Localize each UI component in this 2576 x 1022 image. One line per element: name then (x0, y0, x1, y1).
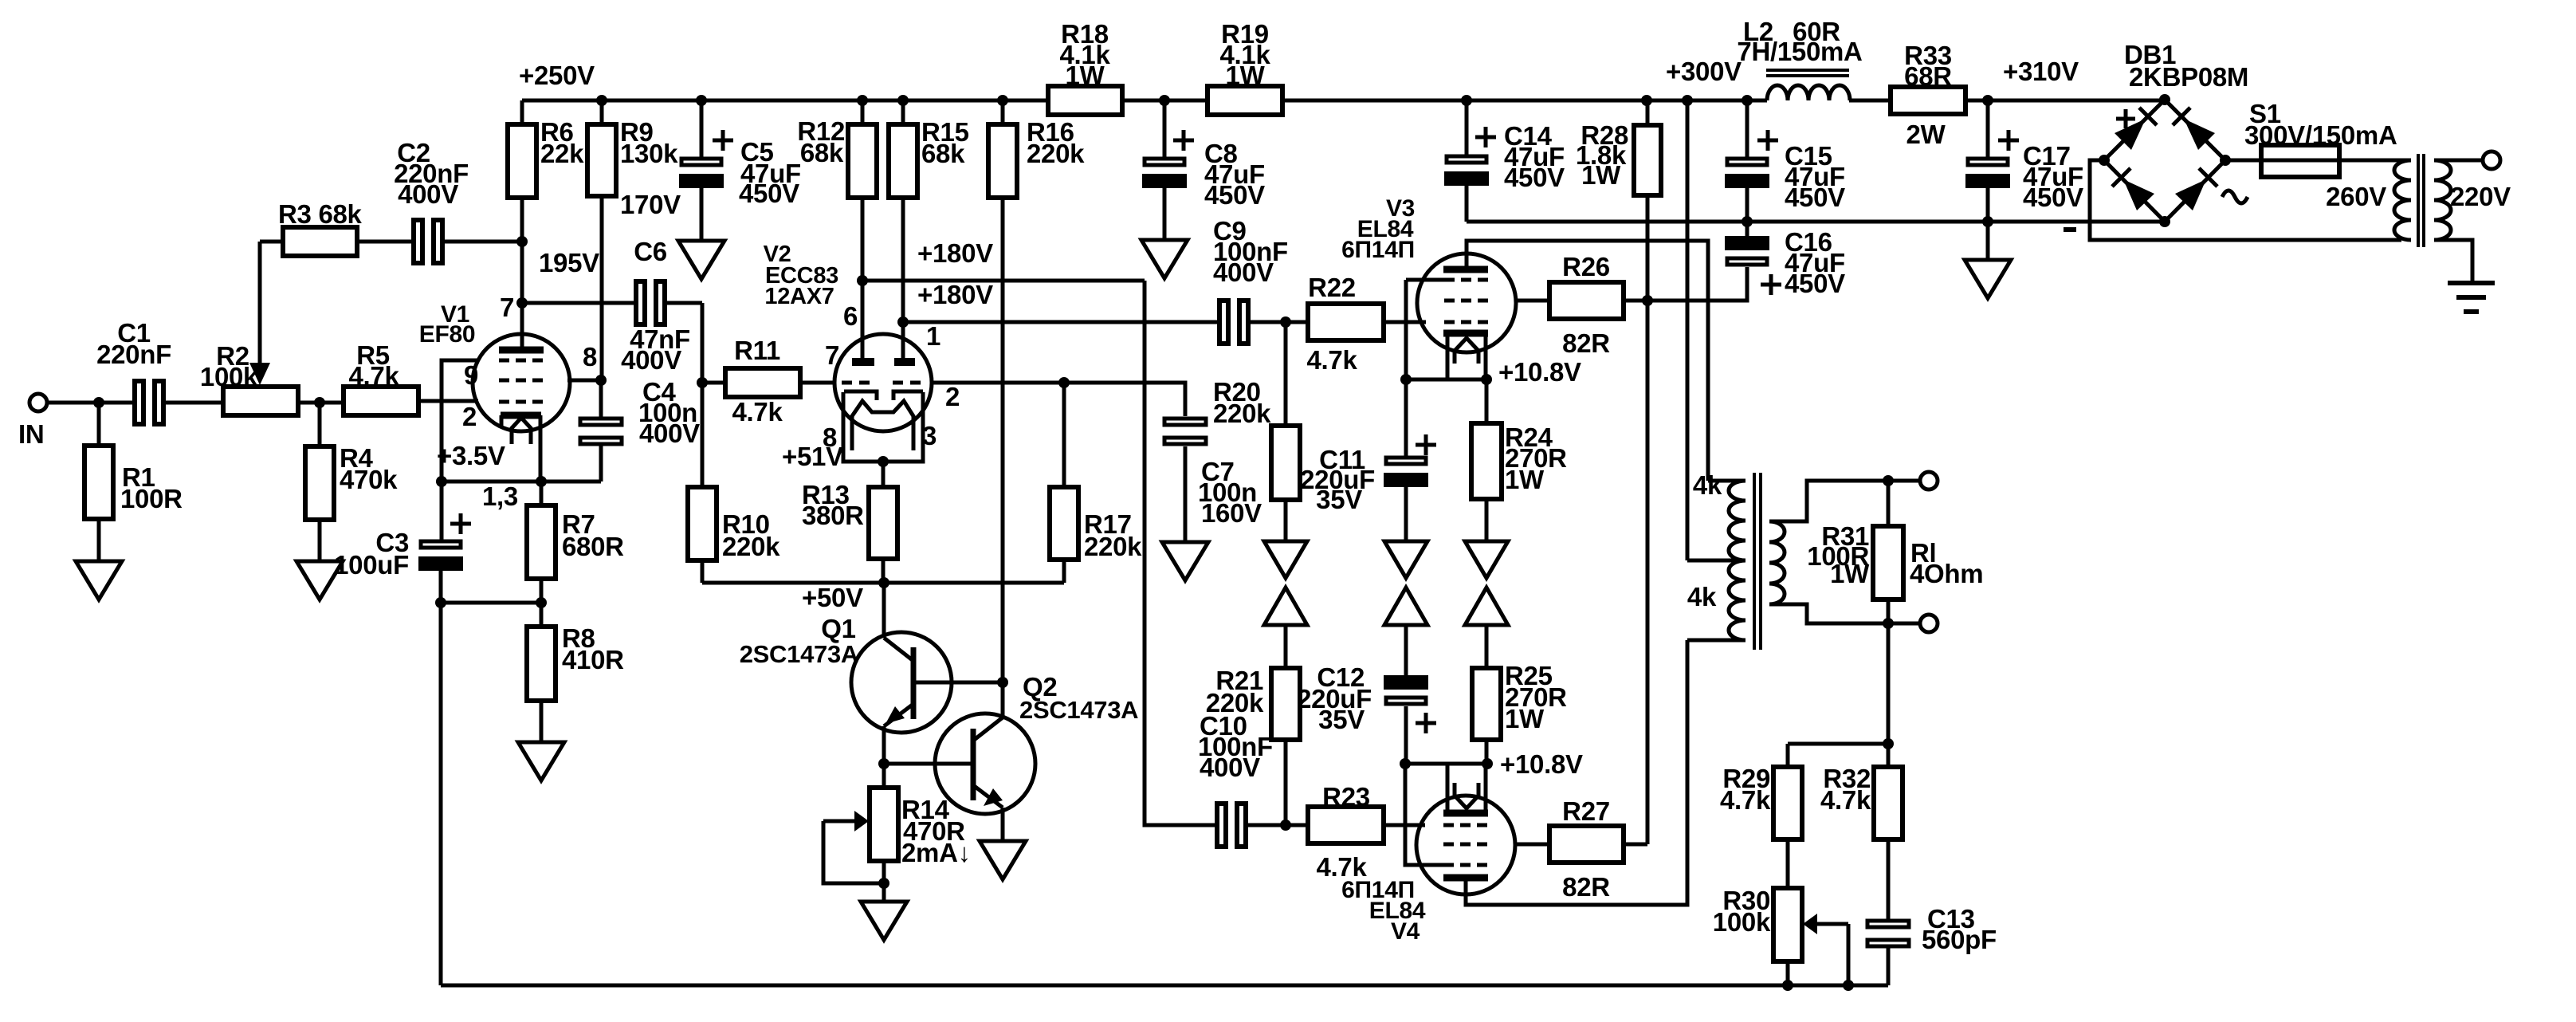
node (1400, 758, 1411, 769)
node (1641, 95, 1652, 106)
node (1280, 820, 1291, 831)
potentiometer R14 (870, 764, 971, 883)
node R4 junction (314, 397, 325, 408)
wire coupling column (1145, 281, 1216, 825)
pin 6 label (843, 301, 858, 331)
label +3.5V (437, 441, 505, 470)
wire +180V upper (862, 279, 1145, 283)
wire (1965, 99, 2165, 103)
wire (1249, 320, 1308, 324)
wire g3 tie (1406, 278, 1444, 282)
wire (1485, 499, 1489, 541)
svg-text:220k: 220k (1213, 399, 1271, 428)
svg-text:9: 9 (464, 360, 478, 390)
svg-text:+50V: +50V (802, 583, 863, 612)
node (697, 377, 708, 388)
node (1982, 95, 1993, 106)
resistor R33 (1891, 41, 1965, 149)
svg-text:22k: 22k (540, 139, 584, 168)
svg-text:220k: 220k (722, 532, 780, 561)
pin 1 label (926, 321, 940, 351)
svg-text:+250V: +250V (519, 61, 595, 90)
svg-text:1W: 1W (1830, 559, 1870, 588)
wire bottom rail (441, 984, 1888, 988)
svg-text:260V: 260V (2326, 182, 2386, 211)
wire secondary top (2434, 159, 2483, 163)
svg-text:2SC1473A: 2SC1473A (1019, 696, 1138, 724)
output terminal bottom (1920, 615, 1938, 632)
node (1058, 377, 1070, 388)
svg-text:6: 6 (843, 301, 858, 331)
node (897, 316, 909, 328)
diodes bias V4 (1465, 541, 1508, 625)
V4 g3 row (1443, 863, 1488, 867)
svg-text:100uF: 100uF (334, 550, 409, 580)
wire g3 column V4 (1405, 764, 1444, 865)
wire ground rail (1467, 186, 2165, 222)
resistor R3 (260, 199, 363, 256)
wire (1887, 839, 1891, 920)
output terminal top (1920, 472, 1938, 489)
svg-text:+180V: +180V (917, 238, 993, 268)
wire (165, 401, 223, 405)
pin 3 label (922, 421, 937, 450)
bridge rectifier DB1 2KBP08M (2099, 40, 2248, 227)
ground (861, 902, 907, 940)
node input junction (93, 397, 104, 408)
V4 cathode (1443, 810, 1488, 817)
wire OPT center tap (1687, 100, 1745, 560)
svg-text:450V: 450V (2023, 183, 2083, 212)
svg-text:100R: 100R (120, 484, 183, 513)
V2 cathode box (843, 392, 923, 462)
capacitor C13 (1867, 904, 1997, 985)
wire (298, 401, 344, 405)
ground (518, 742, 564, 780)
wire (1786, 839, 1790, 888)
svg-text:V4: V4 (1391, 918, 1420, 945)
node (1280, 316, 1291, 328)
node (1843, 980, 1854, 991)
node (1642, 295, 1653, 306)
wire (443, 240, 522, 244)
node (1742, 216, 1753, 227)
svg-text:450V: 450V (1204, 180, 1265, 210)
ground (1965, 260, 2011, 298)
label 170V (620, 190, 681, 219)
capacitor C17 (1965, 100, 2083, 212)
svg-text:4k: 4k (1687, 582, 1717, 611)
wire R9 column (600, 196, 604, 380)
input terminal IN (18, 394, 47, 449)
svg-text:300V/150mA: 300V/150mA (2244, 120, 2397, 150)
wire (1404, 487, 1408, 541)
svg-text:400V: 400V (621, 345, 681, 375)
wire (418, 399, 478, 403)
svg-text:3: 3 (922, 421, 937, 450)
node (1400, 374, 1412, 385)
label minus (2064, 227, 2076, 232)
ground (76, 561, 122, 599)
transistor Q2 2SC1473A (935, 672, 1138, 814)
pin 9 label (464, 360, 478, 390)
resistor R5 (344, 340, 418, 415)
wire R2 wiper (258, 242, 262, 363)
V1 grid g3 row (499, 359, 544, 363)
mains primary 260V (2326, 160, 2411, 240)
resistor R6 (508, 100, 584, 198)
wire (441, 601, 541, 605)
node (1883, 618, 1894, 629)
node (857, 95, 868, 106)
wire V2 pin6 column (861, 198, 865, 363)
wire secondary bottom (1769, 604, 1929, 623)
resistor R9 (587, 100, 678, 196)
node (595, 375, 607, 386)
node (1982, 216, 1993, 227)
V4 g1 row (1443, 823, 1488, 827)
wire (1384, 823, 1425, 827)
svg-text:170V: 170V (620, 190, 681, 219)
node (696, 95, 707, 106)
V3 anode (1443, 266, 1488, 273)
wire cathode bus V3 (1406, 378, 1486, 382)
wire wiper loop (823, 821, 884, 883)
node (997, 95, 1008, 106)
V4 heater (1455, 783, 1478, 808)
Q1 emitter (884, 704, 913, 764)
tube V2 ECC83 envelope (764, 242, 932, 431)
svg-text:6П14П: 6П14П (1341, 237, 1415, 263)
svg-text:450V: 450V (1504, 163, 1565, 192)
svg-text:4Ohm: 4Ohm (1910, 559, 1983, 588)
resistor R27 (1514, 796, 1647, 902)
svg-text:1W: 1W (1066, 61, 1105, 90)
svg-text:IN: IN (18, 419, 44, 449)
pin 2 label (462, 402, 477, 431)
svg-text:R11: R11 (734, 336, 780, 365)
svg-text:400V: 400V (1200, 753, 1260, 782)
node (1461, 95, 1472, 106)
OPT primary bottom winding 4k (1687, 560, 1745, 640)
node C2 junction (516, 236, 528, 247)
V2 anodes (852, 358, 915, 366)
node (536, 597, 547, 608)
node (878, 758, 889, 769)
capacitor C11 (1300, 379, 1436, 514)
node (1782, 980, 1793, 991)
resistor R7 (527, 482, 624, 603)
capacitor C10 (1198, 711, 1273, 847)
svg-text:35V: 35V (1316, 485, 1362, 514)
capacitor C1 (96, 318, 171, 424)
wire pin8 (567, 379, 601, 383)
wire OPT bottom terminal (1687, 639, 1745, 643)
fuse S1 300V/150mA (2244, 99, 2397, 177)
svg-text:4.7k: 4.7k (1306, 345, 1357, 375)
svg-text:2: 2 (462, 402, 477, 431)
Q2 collector (973, 717, 1003, 741)
svg-text:450V: 450V (1785, 183, 1845, 212)
wire (1384, 320, 1426, 324)
OPT core (1754, 473, 1761, 650)
wire (2339, 159, 2410, 163)
node (1682, 95, 1693, 106)
capacitor C15 (1725, 100, 1845, 212)
svg-text:400V: 400V (639, 419, 700, 448)
OPT primary top winding 4k (1693, 470, 1745, 560)
resistor R15 (889, 100, 969, 198)
resistor R10 (688, 383, 780, 583)
svg-text:400V: 400V (1213, 257, 1274, 287)
wire (1163, 188, 1167, 240)
wire (1849, 99, 1891, 103)
resistor R17 (1050, 383, 1142, 583)
wire (1788, 742, 1888, 746)
svg-text:+3.5V: +3.5V (437, 441, 505, 470)
label +310V (2003, 57, 2079, 86)
node (857, 275, 868, 286)
mains terminal (2483, 151, 2500, 169)
resistor R32 (1820, 764, 1903, 839)
label +50V (802, 583, 863, 612)
svg-text:82R: 82R (1562, 328, 1610, 358)
svg-text:1W: 1W (1505, 465, 1545, 494)
svg-text:+10.8V: +10.8V (1500, 749, 1583, 779)
node C6 junction (516, 297, 528, 309)
svg-text:220nF: 220nF (96, 340, 171, 369)
V1 cathode (501, 415, 541, 427)
transistor Q1 2SC1473A (740, 614, 952, 733)
pin 2 label (945, 382, 960, 411)
label ac wave (2222, 191, 2248, 203)
svg-text:220V: 220V (2450, 182, 2511, 211)
svg-text:1W: 1W (1505, 704, 1545, 733)
capacitor C8 (1142, 100, 1265, 210)
svg-text:+180V: +180V (917, 280, 993, 309)
Q1 collector (884, 583, 913, 661)
wire g3 column (1404, 280, 1408, 379)
node (897, 95, 909, 106)
svg-text:2mA↓: 2mA↓ (901, 838, 971, 867)
ground (678, 241, 724, 279)
wire +250V rail (522, 99, 1048, 103)
wire +50V rail (702, 581, 1064, 585)
label +180V lower (917, 280, 993, 309)
wire cathode bus (442, 480, 601, 484)
wire cathode bus V4 (1405, 762, 1487, 766)
wire (1485, 625, 1489, 668)
node (596, 95, 607, 106)
node (878, 456, 889, 467)
resistor R12 (797, 100, 877, 198)
wire (1887, 623, 1891, 767)
node (1883, 475, 1894, 486)
svg-text:+10.8V: +10.8V (1498, 357, 1581, 387)
earth ground (2448, 283, 2495, 312)
svg-text:8: 8 (583, 342, 597, 371)
wire (1122, 99, 1207, 103)
V3 g3 row (1444, 278, 1489, 282)
svg-text:+310V: +310V (2003, 57, 2079, 86)
wire AC left loop (2090, 160, 2401, 240)
resistor R8 (527, 603, 624, 742)
V4 g2 row (1443, 843, 1488, 847)
wire (1404, 706, 1408, 764)
svg-text:220k: 220k (1084, 532, 1142, 561)
svg-text:4.7k: 4.7k (1820, 785, 1871, 815)
wire C16 to screen node (1647, 267, 1747, 301)
V1 anode (499, 347, 544, 354)
mains secondary 220V (2434, 160, 2511, 240)
resistor R29 (1720, 744, 1802, 839)
svg-text:C6: C6 (634, 237, 667, 266)
svg-text:400V: 400V (398, 179, 458, 209)
node (878, 577, 889, 588)
ground (296, 561, 343, 599)
svg-text:130k: 130k (620, 139, 678, 168)
svg-text:7: 7 (500, 293, 514, 322)
diodes bias V3b (1384, 541, 1427, 625)
pin 7 label (825, 340, 839, 370)
svg-text:160V: 160V (1201, 498, 1262, 528)
svg-text:450V: 450V (739, 179, 799, 208)
resistor R23 (1308, 782, 1384, 882)
svg-text:R22: R22 (1308, 273, 1356, 302)
svg-text:Q1: Q1 (821, 614, 855, 643)
tube V4 EL84 envelope (1341, 796, 1515, 945)
node (1883, 738, 1894, 749)
svg-text:2KBP08M: 2KBP08M (2129, 62, 2248, 92)
node (436, 476, 447, 487)
Q2 emitter (973, 785, 1003, 841)
resistor R21 (1206, 666, 1300, 740)
svg-text:4.7k: 4.7k (732, 397, 783, 426)
wire (701, 303, 705, 383)
resistor R28 (1576, 100, 1661, 195)
pin 7 label (500, 293, 514, 322)
node (997, 677, 1008, 688)
capacitor C14 (1444, 100, 1565, 192)
OPT secondary winding (1769, 521, 1785, 604)
resistor R13 (802, 462, 897, 583)
resistor R1 (84, 403, 183, 561)
wire V4 anode to OPT (1466, 640, 1687, 905)
svg-text:7H/150mA: 7H/150mA (1737, 37, 1862, 66)
label +300V (1666, 57, 1742, 86)
node (1482, 758, 1493, 769)
capacitor C16 (1725, 222, 1845, 298)
wire feedback to bottom rail (439, 603, 443, 985)
potentiometer R2 (200, 341, 298, 415)
wire secondary top (1769, 481, 1929, 521)
resistor R16 (988, 100, 1085, 198)
svg-text:1,3: 1,3 (482, 482, 518, 511)
wire (1646, 195, 1650, 301)
Q2 base wire (884, 762, 973, 766)
svg-text:2: 2 (945, 382, 960, 411)
R14 wiper arrow (823, 811, 869, 831)
svg-text:EF80: EF80 (419, 321, 476, 348)
resistor R18 (1048, 19, 1122, 115)
svg-text:470k: 470k (340, 465, 398, 494)
svg-text:1: 1 (926, 321, 940, 351)
capacitor C7 (1164, 419, 1262, 542)
node (1159, 95, 1170, 106)
svg-text:2SC1473A: 2SC1473A (740, 640, 858, 668)
svg-text:560pF: 560pF (1922, 925, 1997, 954)
V1 grid g1 row (499, 400, 544, 404)
svg-text:R27: R27 (1562, 796, 1610, 826)
wire wiper (1847, 924, 1851, 985)
wire secondary bottom (2434, 240, 2472, 281)
potentiometer R30 (1713, 886, 1802, 985)
wire screen column (1646, 301, 1650, 844)
node (435, 597, 446, 608)
svg-text:4.7k: 4.7k (1720, 785, 1771, 815)
label +180V upper (917, 238, 993, 268)
svg-text:100k: 100k (1713, 907, 1771, 937)
ground (980, 841, 1026, 879)
node (878, 878, 889, 889)
wire bridge to fuse (2225, 159, 2261, 163)
wire V2 pin1 column (901, 198, 905, 363)
svg-text:380R: 380R (802, 501, 864, 530)
resistor R19 (1207, 19, 1282, 115)
resistor R20 (1213, 322, 1300, 500)
wire (1284, 740, 1288, 825)
svg-text:100k: 100k (200, 362, 258, 391)
capacitor C3 (334, 513, 471, 603)
label +10.8V lower (1500, 749, 1583, 779)
V3 cathode legs (1447, 333, 1486, 379)
wire OPT top terminal (1708, 479, 1745, 483)
label +250V (519, 61, 595, 90)
inductor L2 7H/150mA 60R (1737, 17, 1862, 100)
svg-text:220k: 220k (1027, 139, 1085, 168)
label +10.8V (1498, 357, 1581, 387)
wire (700, 188, 704, 241)
wire (1986, 188, 1990, 260)
resistor R31 / load Rl (1807, 481, 1983, 623)
capacitor C5 (679, 100, 801, 208)
pin 8 label (823, 423, 837, 452)
wire (1284, 500, 1288, 541)
wire (1485, 740, 1489, 764)
wire (1282, 99, 1767, 103)
wire R16 to Q2 collector (1001, 198, 1005, 717)
V3 cathode (1443, 330, 1488, 337)
V2 cathodes (844, 391, 923, 400)
wiper arrow (249, 363, 270, 385)
svg-text:4k: 4k (1693, 470, 1722, 500)
V3 g1 row (1444, 320, 1489, 324)
V3 g2 row (1444, 299, 1489, 303)
svg-text:1W: 1W (1226, 61, 1266, 90)
wire pin9 to C3 (442, 360, 478, 540)
svg-text:82R: 82R (1562, 872, 1610, 902)
svg-text:+300V: +300V (1666, 57, 1742, 86)
svg-text:R26: R26 (1562, 252, 1610, 281)
node (536, 476, 547, 487)
label plus (2116, 109, 2135, 128)
wire (1284, 625, 1288, 668)
node (1742, 95, 1753, 106)
svg-text:2W: 2W (1906, 120, 1946, 149)
svg-text:12AX7: 12AX7 (764, 284, 834, 309)
V1 grid g2 row (499, 379, 544, 383)
pin 8 label (583, 342, 597, 371)
